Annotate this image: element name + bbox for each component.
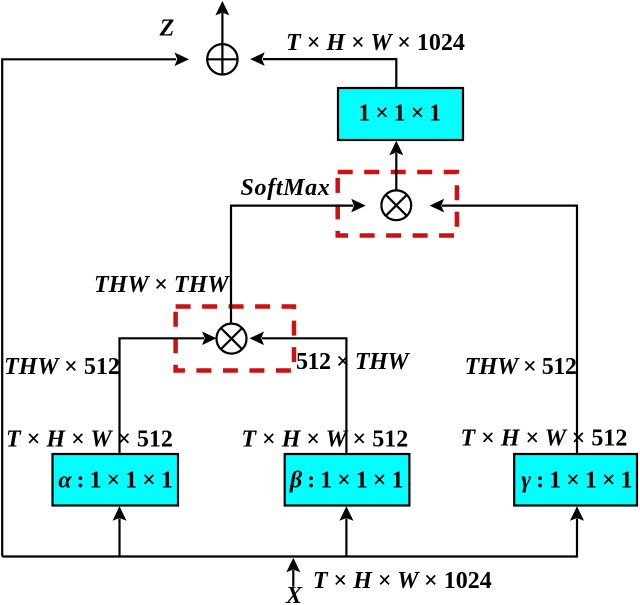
svg-text:T × H × W × 1024: T × H × W × 1024: [313, 568, 492, 594]
conv box gamma: [514, 454, 637, 506]
wire: lower multiplier output up then right (SoftMax) to upper multiplier: [231, 206, 353, 324]
arrowhead into lower multiplier from right: [250, 332, 265, 346]
lower multiplier X diagonal 1: [221, 328, 242, 349]
wire: alpha output up then right to lower multiplier: [120, 338, 205, 454]
adder plus horizontal stroke: [207, 58, 237, 60]
arrowhead into upper multiplier from left: [351, 199, 366, 213]
arrowhead of Z output: [215, 1, 229, 16]
svg-text:X: X: [285, 583, 303, 605]
lower multiplier circle (circled times): [217, 324, 247, 354]
arrowhead into beta box: [339, 506, 353, 521]
svg-text:β : 1 × 1 × 1: β : 1 × 1 × 1: [289, 468, 403, 494]
arrowhead of X input into bus: [286, 558, 300, 573]
wire: adder output up (Z): [221, 13, 223, 75]
adder plus vertical stroke: [221, 44, 223, 74]
arrowhead into alpha box: [113, 506, 127, 521]
svg-text:α : 1 × 1 × 1: α : 1 × 1 × 1: [58, 468, 172, 494]
arrowhead into upper multiplier from right: [430, 199, 445, 213]
svg-text:512 × THW: 512 × THW: [296, 349, 410, 375]
arrowhead into adder from left: [175, 53, 190, 67]
red dashed box around upper multiplier: [338, 172, 457, 236]
wire: branch up to beta box: [345, 519, 347, 557]
wire: beta output up then left to lower multiplier: [262, 338, 346, 454]
conv box alpha: [53, 454, 179, 506]
conv box 1x1x1 (top): [338, 88, 463, 140]
adder circle (circled plus): [207, 44, 237, 74]
svg-text:SoftMax: SoftMax: [241, 175, 331, 201]
upper multiplier X diagonal 1: [386, 195, 407, 216]
wire: branch up to alpha box: [118, 519, 120, 557]
svg-text:T × H × W × 512: T × H × W × 512: [460, 426, 627, 452]
svg-text:THW × 512: THW × 512: [465, 354, 577, 380]
svg-text:1 × 1 × 1: 1 × 1 × 1: [358, 101, 440, 127]
svg-text:γ : 1 × 1 × 1: γ : 1 × 1 × 1: [521, 468, 632, 494]
svg-text:T × H × W × 1024: T × H × W × 1024: [286, 30, 465, 56]
arrowhead into lower multiplier from left: [202, 332, 217, 346]
arrowhead into gamma box: [570, 506, 584, 521]
svg-text:T × H × W × 512: T × H × W × 512: [6, 427, 173, 453]
arrowhead into adder from right: [250, 52, 265, 66]
wire: bottom input bus: [2, 519, 577, 557]
red dashed box around lower multiplier: [176, 307, 294, 371]
upper multiplier X diagonal 2: [386, 195, 407, 216]
wire: X input arrow shaft: [292, 570, 294, 587]
upper multiplier circle (circled times): [381, 190, 411, 220]
wire: 1x1x1 box output up then left to adder: [263, 59, 396, 88]
conv box beta: [285, 454, 410, 506]
svg-text:Z: Z: [159, 16, 175, 42]
svg-text:THW × THW: THW × THW: [94, 272, 230, 298]
arrowhead into 1x1x1 box: [389, 141, 403, 156]
wire: gamma output up then left to upper multiplier: [442, 206, 577, 454]
wire: left residual branch from bottom bus up to adder: [2, 59, 176, 556]
wire: upper multiplier output up to 1x1x1 box: [395, 153, 397, 190]
svg-text:T × H × W × 512: T × H × W × 512: [241, 427, 408, 453]
lower multiplier X diagonal 2: [221, 328, 242, 349]
svg-text:THW × 512: THW × 512: [4, 354, 120, 380]
